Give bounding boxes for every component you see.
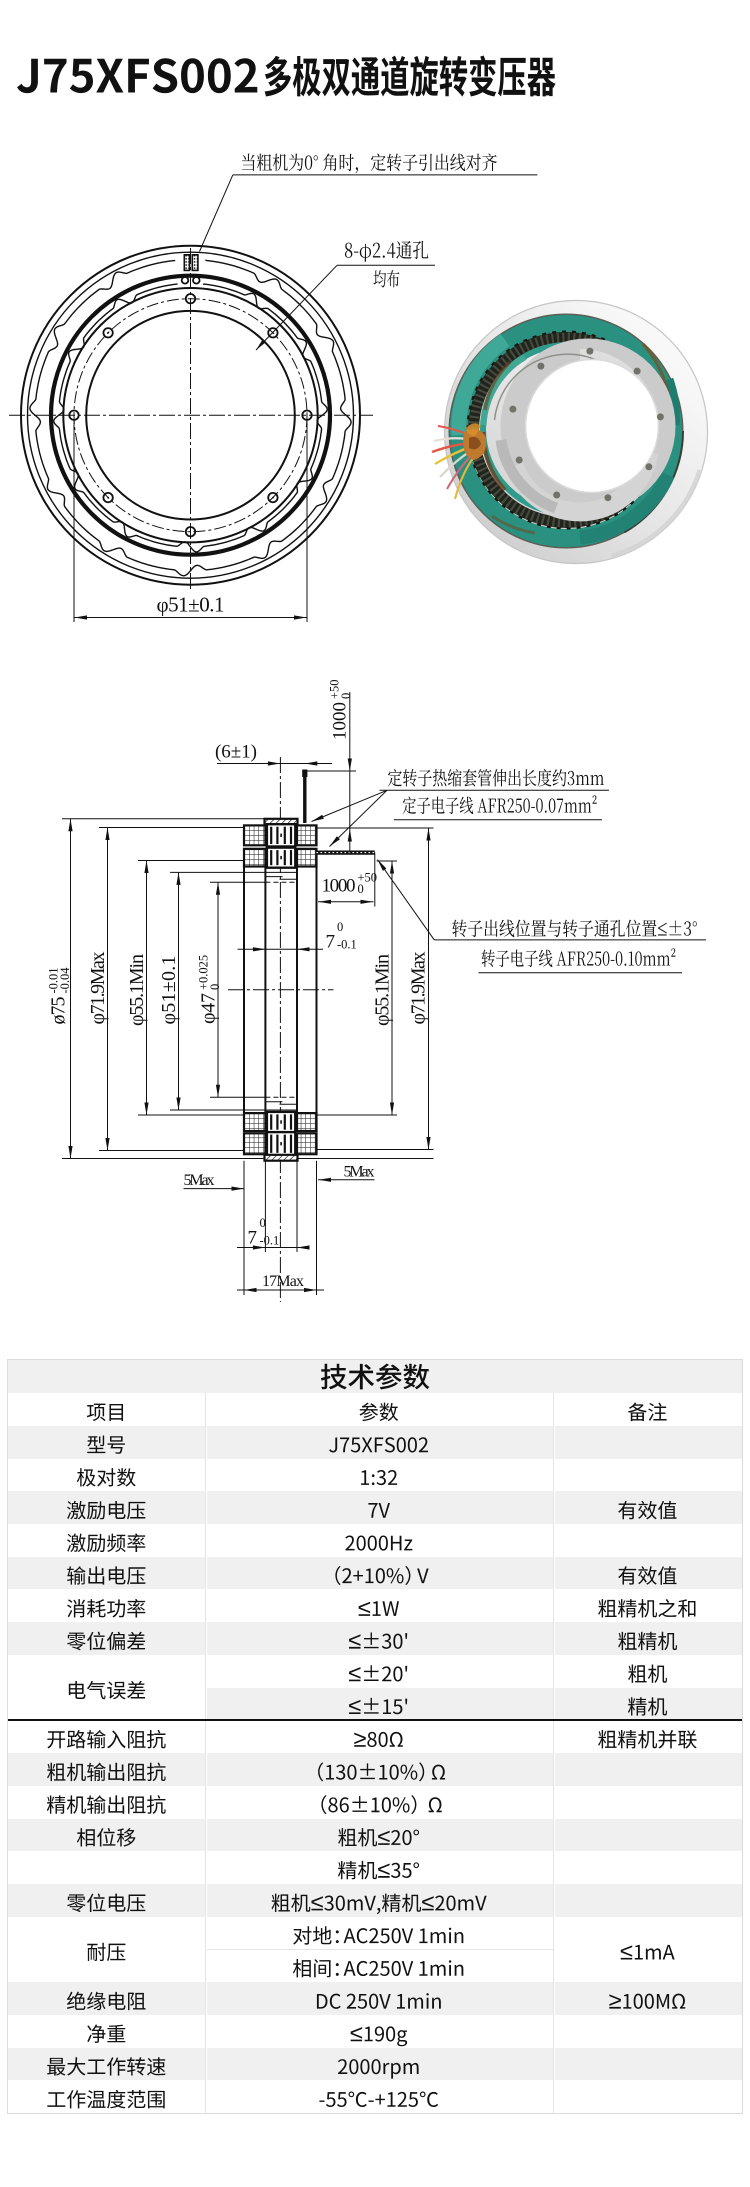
front view resolver drawing <box>9 153 537 622</box>
gray row bg <box>8 1491 205 1524</box>
dim phi71.9 left <box>107 828 109 1151</box>
table cell <box>359 1403 398 1422</box>
bottom rotor winding right <box>297 1113 317 1131</box>
cylinder wall <box>264 867 266 1114</box>
note stator heat-shrink <box>388 769 604 787</box>
through hole <box>268 328 277 337</box>
svg-text:φ71.9Max: φ71.9Max <box>87 952 109 1025</box>
dim phi51 <box>178 872 180 1110</box>
gray row bg <box>8 1622 205 1655</box>
gray half row (electrical error second) <box>207 1688 553 1721</box>
note: alignment annotation <box>242 153 497 173</box>
dim phi75 <box>70 819 72 1159</box>
svg-text:ø75: ø75 <box>48 997 70 1025</box>
vertical centerline <box>190 248 192 592</box>
top rotor winding right <box>297 849 317 867</box>
table cell <box>368 1503 390 1518</box>
bottom cap heat-shrink strip <box>265 1155 298 1161</box>
svg-text:φ55.1Min: φ55.1Min <box>126 954 148 1026</box>
bottom stator winding right <box>297 1133 317 1154</box>
table cell <box>67 1599 145 1618</box>
svg-text:0: 0 <box>339 693 353 699</box>
table cell <box>47 1795 166 1814</box>
table cell <box>67 1533 145 1552</box>
outer circle <box>21 246 360 585</box>
table cell <box>77 1828 136 1847</box>
table cell <box>598 1599 695 1618</box>
table cell <box>47 1730 165 1749</box>
svg-text:5Max: 5Max <box>184 1172 215 1189</box>
table cell <box>628 1403 667 1421</box>
dim phi75 extension lines <box>62 818 265 820</box>
dimension phi51 line <box>74 617 307 619</box>
table cell <box>329 1437 428 1452</box>
table cell <box>47 1763 166 1782</box>
table cell <box>618 1632 677 1650</box>
top stator winding left <box>244 825 265 845</box>
inner wavy spring ring <box>54 284 327 552</box>
through hole <box>69 411 78 420</box>
gray row bg <box>8 1884 205 1917</box>
svg-text:0: 0 <box>358 882 364 896</box>
rivet hole <box>634 368 641 375</box>
top stator core <box>267 824 295 846</box>
rust ring between tape and hub <box>483 432 505 490</box>
outer teal tape band <box>459 324 673 538</box>
gray row bg <box>8 2048 205 2081</box>
table cell <box>319 2092 438 2108</box>
svg-text:φ51±0.1: φ51±0.1 <box>158 956 180 1025</box>
svg-text:7: 7 <box>248 1228 258 1249</box>
dim 7-0.1 bottom <box>264 1161 266 1252</box>
second outer circle <box>28 252 354 578</box>
top rotor winding left <box>244 849 265 867</box>
svg-text:-0.04: -0.04 <box>58 967 72 994</box>
table cell <box>77 1468 136 1486</box>
table cell <box>598 1730 697 1749</box>
rotor lead wire <box>317 850 375 854</box>
horizontal centerline <box>9 414 373 416</box>
spec table <box>7 1359 743 2114</box>
dim phi55.1 right <box>391 861 393 1115</box>
phi47 hidden line top <box>210 881 265 883</box>
table cell <box>338 2059 419 2079</box>
leader: zero-angle alignment note <box>200 175 233 252</box>
dark toothed winding band <box>474 338 659 523</box>
bolt hole centre circle (dash-dot) <box>74 299 307 532</box>
cylinder wall <box>296 867 298 1114</box>
divider inside withstand-voltage block <box>207 1949 553 1951</box>
rim / teal separation <box>450 315 683 548</box>
svg-text:-0.1: -0.1 <box>260 1234 280 1248</box>
table cell <box>67 1501 145 1520</box>
gray row bg <box>8 1557 205 1590</box>
gray row bg <box>8 1426 205 1459</box>
leader to through hole <box>256 265 337 350</box>
svg-text:φ51±0.1: φ51±0.1 <box>157 593 225 617</box>
table cell <box>293 1926 463 1944</box>
svg-text:φ71.9Max: φ71.9Max <box>408 952 430 1025</box>
rivet hole <box>537 363 544 370</box>
bore circle <box>86 311 295 520</box>
rivet hole <box>657 413 664 420</box>
top rotor core <box>267 848 295 868</box>
dim phi55.1 left <box>146 861 148 1116</box>
table cell <box>272 1894 487 1915</box>
table cell <box>67 1632 145 1651</box>
table cell <box>318 1762 445 1781</box>
table cell <box>354 1732 403 1747</box>
label phi75 <box>46 967 72 1025</box>
header row bg <box>8 1360 742 1393</box>
kapton / solder blob <box>463 429 486 460</box>
table cell <box>618 1501 676 1519</box>
bottom rotor winding left <box>244 1113 265 1131</box>
table header <box>321 1364 429 1390</box>
table cell <box>317 1993 441 2009</box>
bore <box>526 360 659 493</box>
leaders stator note <box>312 790 388 821</box>
lead wires <box>434 438 473 441</box>
table cell <box>338 1861 419 1879</box>
dim 1000 (rotor wire) <box>374 853 376 907</box>
label phi71.9Max right <box>408 952 430 1025</box>
section view drawing <box>46 679 706 1302</box>
table cell <box>628 1697 667 1715</box>
inner teal tape line <box>483 345 651 513</box>
table cell <box>67 1566 145 1584</box>
label phi51 <box>158 956 180 1025</box>
table cell <box>361 1470 397 1485</box>
table cell <box>628 1665 667 1683</box>
table cell <box>293 1959 463 1977</box>
bottom rotor core <box>267 1112 295 1132</box>
break marks bottom <box>266 1101 283 1103</box>
top stator winding right <box>297 825 317 845</box>
product photo (stylised) <box>432 301 708 564</box>
table cell <box>87 1436 125 1454</box>
inner thin circle <box>63 288 317 542</box>
svg-text:0: 0 <box>208 984 222 990</box>
table cell <box>67 1992 146 2011</box>
phi51 surface line bottom <box>170 1109 297 1111</box>
stator lead wire <box>303 770 306 824</box>
dim 17Max <box>243 1161 245 1295</box>
dim 7-0.1 middle <box>238 948 323 950</box>
dim phi47 <box>217 882 219 1097</box>
through hole <box>103 328 112 337</box>
label phi55.1Min right <box>372 954 394 1026</box>
table cell <box>67 1893 145 1912</box>
table cell <box>359 1601 399 1616</box>
divider above open-circuit row <box>8 1719 742 1721</box>
table cell <box>335 1566 428 1585</box>
rivet hole <box>586 348 593 355</box>
table cell <box>47 2090 164 2109</box>
table cell <box>338 1828 419 1846</box>
svg-text:1000: 1000 <box>322 876 356 897</box>
table cell <box>349 1698 407 1714</box>
svg-text:0: 0 <box>337 920 343 934</box>
svg-text:φ55.1Min: φ55.1Min <box>372 954 394 1026</box>
through hole <box>186 294 195 303</box>
svg-text:0: 0 <box>260 1216 266 1230</box>
dimension phi51 extension lines <box>73 421 75 622</box>
note: 8 holes annotation <box>345 241 428 262</box>
label phi47 <box>196 955 222 1024</box>
bold stator circle <box>51 276 330 555</box>
table cell <box>47 2057 165 2075</box>
through hole <box>302 411 311 420</box>
cylinder wall <box>243 867 245 1114</box>
lead wire heat-shrink tubes at top <box>184 255 189 271</box>
svg-text:17Max: 17Max <box>262 1273 304 1290</box>
rivet hole <box>509 406 516 413</box>
horizontal centreline <box>228 989 334 991</box>
table cell <box>345 1535 412 1550</box>
table cell <box>349 1633 407 1649</box>
outer wavy spring ring <box>30 260 351 576</box>
rivet hole <box>516 457 523 464</box>
label phi55.1Min left <box>126 954 148 1026</box>
lead wires seen end-on <box>182 277 189 284</box>
table cell <box>349 1665 407 1681</box>
rivet hole <box>604 494 611 501</box>
label phi71.9Max left <box>87 952 109 1025</box>
phi47 hidden line bottom <box>210 1096 265 1098</box>
dim phi55.1 left extension lines <box>138 860 244 862</box>
break marks top <box>266 876 283 878</box>
dim phi71.9 left extension lines <box>99 827 244 829</box>
svg-text:-0.1: -0.1 <box>337 938 357 952</box>
gray row bg <box>8 1753 205 1786</box>
bottom stator core <box>267 1132 295 1155</box>
through hole <box>103 493 112 502</box>
dim phi55.1 right extension lines <box>377 860 397 862</box>
table cell <box>87 2024 125 2042</box>
svg-text:(6±1): (6±1) <box>215 742 257 763</box>
svg-text:1000: 1000 <box>330 702 351 740</box>
gray row bg <box>8 1982 205 2015</box>
note rotor lead position <box>452 919 697 937</box>
title J75XFS002 <box>17 58 257 93</box>
through hole <box>186 527 195 536</box>
svg-text:φ47: φ47 <box>198 993 220 1024</box>
cylinder wall <box>316 867 318 1114</box>
gray row bg <box>8 1819 205 1852</box>
dim 1000 (stator wire) <box>306 770 356 772</box>
rivet hole <box>553 492 560 499</box>
inner silver hub ring <box>501 339 676 514</box>
rust streaks on outer teal <box>643 344 668 395</box>
dim phi71.9 right <box>428 828 430 1150</box>
through hole <box>268 493 277 502</box>
table cell <box>609 1994 685 2009</box>
outer metallic rim <box>445 301 708 564</box>
table cell <box>351 2026 408 2046</box>
table cell <box>618 1566 676 1584</box>
top cap heat-shrink strip <box>265 819 298 825</box>
leader rotor note <box>378 860 435 940</box>
table cell <box>87 1404 123 1422</box>
dim phi71.9 right extension lines <box>317 827 434 829</box>
svg-text:5Max: 5Max <box>344 1164 375 1181</box>
vertical centreline <box>279 757 281 1302</box>
svg-text:7: 7 <box>326 932 336 953</box>
bottom stator winding left <box>244 1133 265 1154</box>
table cell <box>321 1795 441 1814</box>
rivet hole <box>645 463 652 470</box>
phi51 surface line top <box>170 871 297 873</box>
